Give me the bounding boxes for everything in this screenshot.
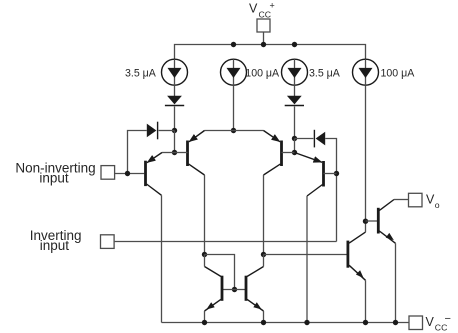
transistor Q7 (NPN mirror, diode-connected) bbox=[205, 255, 223, 323]
svg-text:V: V bbox=[426, 315, 435, 329]
terminal inverting input bbox=[101, 235, 115, 249]
transistor Q3 (PNP darlington, right) bbox=[264, 131, 282, 176]
wire emitter bus bbox=[205, 130, 264, 132]
wire Q6 collector to Vo bbox=[394, 199, 409, 201]
label Inverting input bbox=[30, 228, 82, 253]
node rail Q5 bbox=[363, 320, 368, 325]
wire non-inverting input to Q1 base bbox=[115, 173, 145, 175]
node rail Q4 bbox=[304, 320, 309, 325]
Vcc+ label bbox=[249, 1, 275, 20]
wire mirror bases link bbox=[223, 289, 245, 291]
node mirror left bbox=[202, 252, 207, 257]
wire Q1 emitter to node B bbox=[162, 152, 175, 154]
svg-text:V: V bbox=[426, 192, 435, 206]
node A bbox=[172, 128, 177, 133]
wire node A2 to node B2 bbox=[294, 139, 296, 153]
transistor Q6 (NPN output follower) bbox=[378, 200, 395, 244]
transistor Q1 (PNP input, non-inverting side) bbox=[146, 153, 163, 196]
wire Vcc+ stem bbox=[263, 32, 265, 45]
diode D2 bbox=[314, 130, 325, 148]
wire I2 tail bbox=[233, 85, 235, 130]
wire Q4 base to node C bbox=[324, 173, 337, 175]
wire Q1 collector to Vcc- rail bbox=[161, 195, 163, 322]
svg-text:3.5 μA: 3.5 μA bbox=[125, 68, 157, 80]
wire Q6 base link bbox=[366, 220, 378, 222]
label Vo bbox=[426, 192, 440, 209]
svg-text:+: + bbox=[270, 1, 275, 11]
wire Vcc- bottom rail bbox=[162, 322, 410, 324]
Vcc+ terminal box bbox=[257, 19, 270, 32]
wire D1 anode to non-inverting node bbox=[128, 131, 147, 174]
current source I3 3.5uA bbox=[282, 59, 308, 85]
svg-text:100 μA: 100 μA bbox=[245, 68, 280, 80]
wire Q3 base to node B2 bbox=[282, 152, 295, 154]
wire mirror base riser bbox=[205, 255, 235, 290]
node rail-I2 bbox=[231, 42, 236, 47]
node B bbox=[172, 150, 177, 155]
wire Q5 collector to Q6 base node bbox=[365, 221, 367, 232]
svg-text:V: V bbox=[249, 2, 258, 16]
node mirror bases bbox=[232, 287, 237, 292]
wire I4 to Q6 base node bbox=[365, 85, 367, 221]
node Q6 base bbox=[363, 219, 368, 224]
terminal non-inverting input bbox=[101, 166, 115, 180]
transistor Q4 (PNP input, inverting side) bbox=[295, 153, 324, 197]
node rail Q8 bbox=[261, 320, 266, 325]
node A2 bbox=[292, 136, 297, 141]
wire I1 to D3 bbox=[174, 85, 176, 96]
current source I1 3.5uA bbox=[162, 59, 188, 85]
wire Q2 collector to mirror bbox=[204, 175, 206, 255]
transistor Q8 (NPN mirror output) bbox=[246, 255, 264, 323]
svg-text:o: o bbox=[435, 200, 440, 210]
node emitter bus bbox=[231, 128, 236, 133]
wire Q4 collector to Vcc- rail bbox=[306, 196, 308, 323]
wire inverting input to node C bbox=[115, 241, 337, 243]
label Vcc- bbox=[426, 313, 451, 333]
current source I4 100uA bbox=[353, 59, 379, 85]
diode D4 bbox=[285, 96, 304, 106]
wire D3 to node A bbox=[174, 106, 176, 130]
wire Q6 emitter to Vcc- rail bbox=[395, 243, 397, 322]
node C (Q4 base) bbox=[334, 171, 339, 176]
node B2 bbox=[292, 150, 297, 155]
node rail Q7 bbox=[202, 320, 207, 325]
node non-inverting bbox=[125, 171, 130, 176]
terminal Vcc- bbox=[409, 316, 423, 330]
wire Q5 emitter to Vcc- rail bbox=[365, 280, 367, 322]
wire node A to node B bbox=[174, 131, 176, 153]
svg-text:input: input bbox=[40, 238, 70, 253]
label Non-inverting input bbox=[15, 161, 95, 186]
diode D3 bbox=[165, 96, 184, 106]
wire D2 anode to inverting node bbox=[325, 139, 336, 242]
svg-text:input: input bbox=[39, 170, 69, 185]
svg-text:3.5 μA: 3.5 μA bbox=[309, 68, 341, 80]
node rail-Vcc bbox=[261, 42, 266, 47]
transistor Q5 (NPN gain stage) bbox=[348, 232, 366, 280]
svg-text:CC: CC bbox=[259, 10, 272, 20]
wire D2 cathode to node A2 bbox=[295, 138, 314, 140]
diode D1 bbox=[147, 122, 158, 140]
transistor Q2 (PNP darlington, left) bbox=[188, 131, 205, 176]
terminal Vo bbox=[409, 193, 423, 207]
svg-text:100 μA: 100 μA bbox=[381, 68, 416, 80]
wire D1 cathode to node A bbox=[159, 130, 175, 132]
node rail Q6 bbox=[393, 320, 398, 325]
wire D4 to node A2 bbox=[294, 106, 296, 138]
wire I3 to D4 bbox=[294, 85, 296, 96]
node rail-I3 bbox=[292, 42, 297, 47]
wire Q2 base to node B bbox=[175, 152, 188, 154]
current source I2 100uA bbox=[221, 59, 247, 85]
wire mirror output to Q5 base bbox=[264, 254, 347, 256]
wire top supply rail bbox=[175, 45, 366, 60]
node mirror right bbox=[261, 252, 266, 257]
wire Q3 collector to mirror bbox=[263, 175, 265, 255]
svg-text:−: − bbox=[445, 313, 451, 325]
